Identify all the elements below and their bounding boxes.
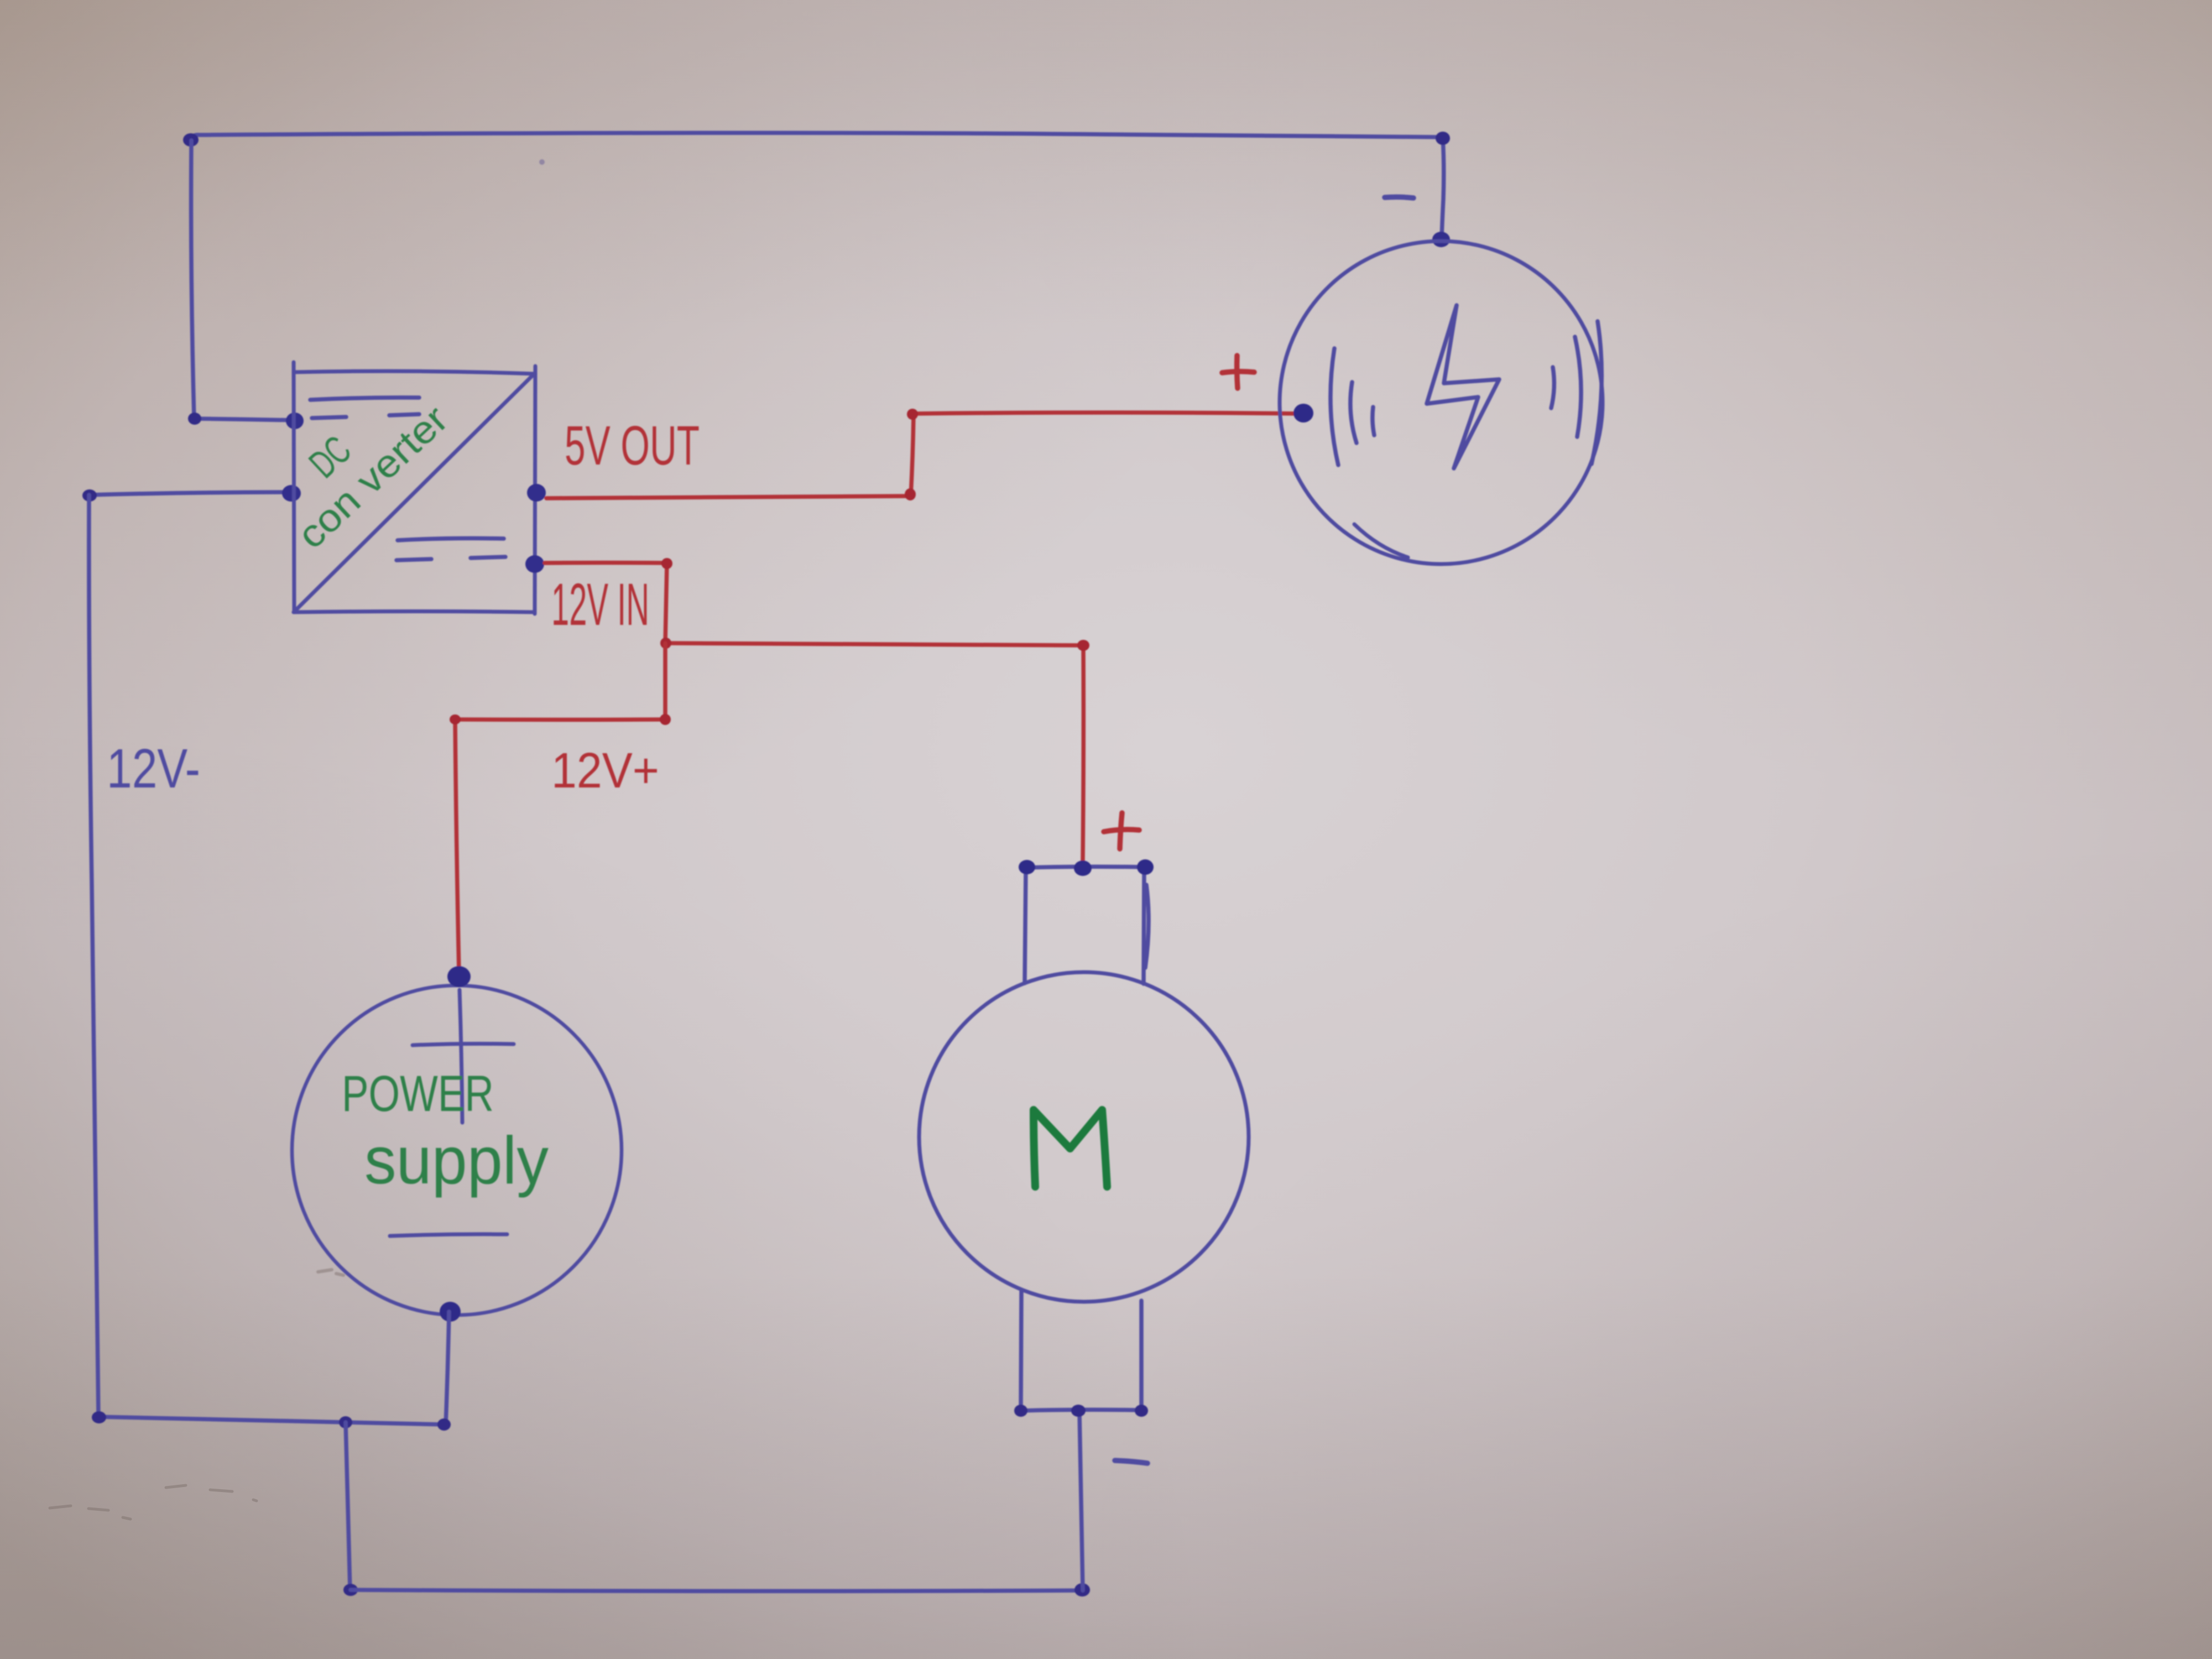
node 12V junction	[660, 638, 671, 649]
battery minus plate	[390, 1234, 507, 1236]
DC converter U1 box	[294, 362, 535, 614]
DC symbol input dashed line	[312, 414, 419, 418]
pencil mark near power supply	[318, 1270, 343, 1275]
svg-text:supply: supply	[364, 1123, 549, 1198]
label 12V+	[551, 743, 659, 799]
pencil smudges bottom left	[50, 1485, 257, 1519]
wire 12V IN red	[545, 563, 1083, 861]
wire motor top lead left	[1025, 868, 1026, 983]
node 12V IN corner	[661, 558, 672, 569]
node bottom tee	[339, 1416, 352, 1428]
svg-text:12V-: 12V-	[107, 738, 200, 800]
wire motor top lead right	[1144, 868, 1149, 984]
charger wave arcs left	[1331, 348, 1374, 465]
plus label at motor	[1104, 813, 1139, 849]
node power supply plus terminal	[447, 966, 471, 987]
minus label at charger	[1385, 197, 1413, 198]
stray ink dot	[539, 159, 545, 165]
node power supply minus terminal	[440, 1302, 461, 1322]
label 5V OUT	[565, 415, 700, 477]
motor terminal bar top	[1026, 867, 1145, 868]
wire charger negative drop	[1442, 137, 1444, 238]
wire 12V- long left vertical	[89, 495, 98, 1417]
DC symbol input solid line	[310, 398, 419, 400]
node bottom left corner	[92, 1411, 106, 1423]
wire motor return riser	[1079, 1412, 1083, 1590]
node DC converter 5V OUT pin	[527, 484, 546, 502]
minus label at motor	[1115, 1460, 1147, 1463]
node motor plus right	[1137, 859, 1154, 875]
label M	[1034, 1110, 1107, 1187]
plus label at charger	[1222, 356, 1254, 388]
node DC converter left pin 2	[282, 485, 301, 502]
label POWER	[342, 1066, 494, 1122]
node 12V- corner	[82, 489, 97, 502]
wire bottom left horizontal	[98, 1417, 445, 1425]
motor circle	[919, 972, 1249, 1302]
node motor plus center	[1074, 860, 1092, 876]
wire bottom rail	[351, 1590, 1083, 1591]
svg-text:12V+: 12V+	[551, 743, 659, 799]
motor terminal bar bottom	[1021, 1410, 1141, 1411]
node charger minus terminal	[1432, 232, 1450, 247]
node corner above DC converter	[188, 413, 201, 425]
battery plus plate	[413, 990, 514, 1123]
svg-text:POWER: POWER	[342, 1066, 494, 1122]
node DC converter top-left pin	[286, 413, 304, 429]
DC symbol output solid line	[398, 538, 504, 540]
node motor plus left	[1019, 860, 1035, 874]
node bottom rail left	[343, 1584, 358, 1596]
charger circle retrace stroke	[1354, 524, 1408, 557]
DC symbol output dashed line	[397, 557, 505, 560]
node 12V to motor corner	[1077, 640, 1089, 651]
label 12V-	[107, 738, 200, 800]
node 12V+ corner right	[660, 714, 671, 725]
wire from top-left corner down to DC converter top pin	[191, 140, 295, 420]
node DC converter 12V IN pin	[525, 555, 544, 573]
node motor minus center	[1071, 1405, 1086, 1417]
power supply circle	[292, 985, 622, 1315]
wire 5V OUT red	[546, 413, 1300, 498]
node charger plus terminal	[1293, 404, 1313, 422]
node 5V OUT corner lower	[905, 488, 916, 500]
wireless charger circle	[1280, 241, 1603, 564]
node top rail right corner	[1436, 132, 1450, 145]
node bottom rail right	[1074, 1583, 1090, 1597]
label DC converter	[289, 397, 456, 557]
lightning bolt icon	[1427, 305, 1499, 468]
node top-left corner	[183, 133, 199, 147]
svg-text:12V IN: 12V IN	[551, 571, 649, 638]
node motor minus right	[1135, 1405, 1148, 1417]
node 5V OUT corner upper	[907, 409, 918, 420]
label 12V IN	[551, 571, 649, 638]
node 12V+ corner left	[450, 714, 461, 724]
charger wave arcs right	[1551, 321, 1601, 464]
node power supply lead joint	[437, 1418, 451, 1431]
node motor minus left	[1014, 1405, 1027, 1417]
wire power supply minus lead	[446, 1312, 449, 1425]
wire top rail 12V- from top-left corner to charger	[191, 133, 1443, 139]
wire motor bottom lead left	[1021, 1291, 1021, 1410]
svg-text:5V OUT: 5V OUT	[565, 415, 700, 477]
wire 12V- left corner to DC converter second pin	[89, 492, 292, 495]
wire motor bottom lead right	[1139, 1301, 1144, 1410]
wire bottom drop	[346, 1422, 350, 1590]
wire 12V+ red	[455, 643, 665, 972]
label supply	[364, 1123, 549, 1198]
